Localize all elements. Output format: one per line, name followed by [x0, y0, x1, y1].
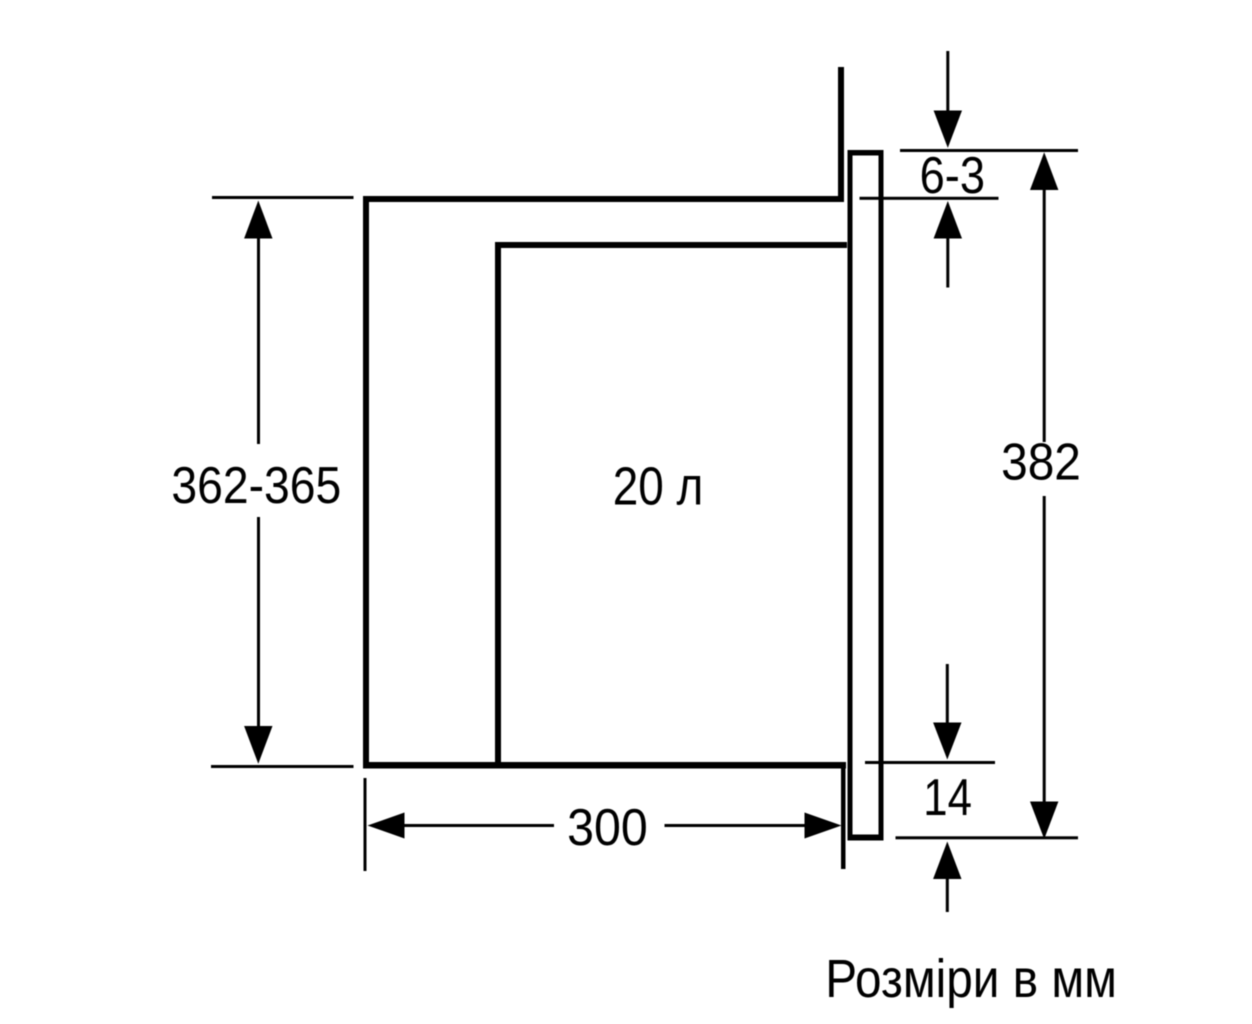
svg-text:300: 300: [567, 798, 648, 856]
svg-text:14: 14: [923, 770, 972, 827]
svg-text:382: 382: [1001, 433, 1081, 491]
svg-text:362-365: 362-365: [171, 457, 341, 515]
svg-text:Розміри в мм: Розміри в мм: [825, 948, 1117, 1008]
svg-text:6-3: 6-3: [920, 147, 985, 205]
svg-text:20 л: 20 л: [613, 456, 704, 516]
